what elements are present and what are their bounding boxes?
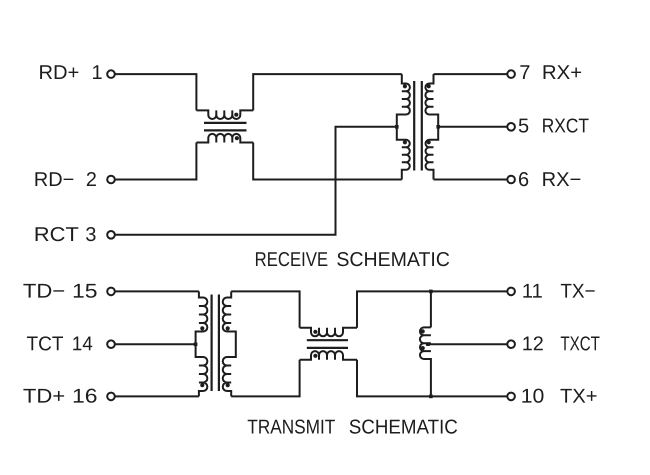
label pin number 3 (86, 227, 95, 241)
label pin number 5 (519, 119, 528, 133)
wire pin14 TCT to T3 primary center tap (115, 343, 195, 345)
transformer T2 secondary top phase dot (427, 84, 431, 88)
choke T1 top winding (196, 110, 253, 119)
choke T4 top winding (300, 328, 357, 337)
pin 2 terminal (107, 176, 115, 184)
inductor L1 lower phase dot (421, 346, 425, 350)
transformer T2 primary top phase dot (403, 84, 407, 88)
label RD+ (40, 65, 78, 79)
label RCT (36, 227, 79, 241)
transformer T2 primary bottom phase dot (403, 140, 407, 144)
label pin number 15 (74, 284, 97, 298)
junction TX+ node (429, 395, 433, 399)
transformer T3 core (212, 295, 219, 392)
junction T2 primary center tap (395, 125, 399, 129)
inductor L1 winding (420, 327, 431, 396)
transformer T3 secondary winding column (223, 291, 236, 396)
label RD- (35, 172, 73, 186)
label pin number 10 (522, 389, 543, 403)
wire L1 center tap to pin12 (426, 343, 507, 345)
transformer T3 primary top phase dot (200, 326, 204, 330)
title TRANSMIT SCHEMATIC (248, 420, 457, 434)
choke T1 bottom winding phase dot (235, 136, 239, 140)
transformer T2 primary winding column (397, 74, 410, 179)
pin 16 terminal (107, 393, 115, 401)
wire pin15 to transformer T3 primary top (115, 290, 199, 292)
wire pin2 to choke T1 bottom winding (115, 143, 196, 180)
choke T4 top winding phase dot (313, 330, 317, 334)
junction T2 secondary center tap (436, 125, 440, 129)
wire T3 secondary bottom to choke T4 bottom winding (231, 360, 299, 397)
label TD+ (23, 389, 64, 403)
pin 10 terminal (507, 393, 515, 401)
transformer T2 secondary winding column (425, 74, 438, 179)
label pin number 2 (87, 172, 96, 186)
label RX+ (544, 65, 582, 79)
wire junction down to inductor L1 top (430, 291, 432, 327)
choke T4 core (307, 340, 348, 348)
label TD- (23, 284, 64, 298)
pin 6 terminal (507, 176, 515, 184)
transformer T3 secondary bottom phase dot (226, 383, 230, 387)
choke T1 core (204, 123, 247, 130)
label pin number 7 (520, 65, 529, 79)
label pin number 12 (523, 336, 543, 350)
label TCT (27, 336, 63, 350)
transformer T2 core (414, 81, 422, 171)
transformer T2 secondary bottom phase dot (427, 140, 431, 144)
wire T2 secondary top to pin7 (434, 73, 507, 75)
wire pin3 RCT to T2 primary center tap (115, 127, 397, 235)
label pin number 16 (74, 389, 97, 403)
wire T2 secondary bottom to pin6 (434, 179, 507, 181)
label pin number 11 (523, 284, 541, 298)
label TX+ (560, 389, 596, 403)
pin 14 terminal (107, 340, 115, 348)
choke T1 top winding phase dot (234, 113, 238, 117)
junction L1 center tap (426, 342, 430, 346)
transformer T3 primary bottom phase dot (200, 383, 204, 387)
label RX- (543, 172, 580, 186)
label pin number 1 (93, 65, 102, 79)
title RECEIVE SCHEMATIC (256, 252, 327, 266)
pin 1 terminal (107, 70, 115, 78)
label TXCT (561, 336, 600, 350)
label RXCT (543, 118, 588, 132)
label pin number 6 (519, 172, 528, 186)
wire T3 secondary top to choke T4 top winding (231, 291, 299, 327)
choke T4 bottom winding (300, 351, 357, 360)
junction TX- node (429, 290, 433, 294)
wire choke T1 bottom to transformer T2 primary bottom (253, 143, 402, 180)
pin 7 terminal (507, 70, 515, 78)
pin 5 terminal (507, 123, 515, 131)
transformer T3 secondary top phase dot (226, 326, 230, 330)
label TX- (561, 284, 595, 298)
inductor L1 upper phase dot (421, 329, 425, 333)
wire choke T4 bottom to pin10 (357, 360, 507, 397)
choke T1 bottom winding (196, 134, 253, 143)
choke T4 bottom winding phase dot (313, 354, 317, 358)
label pin number 14 (73, 337, 92, 351)
pin 3 terminal (107, 231, 115, 239)
pin 11 terminal (507, 288, 515, 296)
pin 12 terminal (507, 340, 515, 348)
wire pin1 to T1 choke top winding (115, 74, 196, 110)
wire pin16 to transformer T3 primary bottom (115, 395, 199, 397)
transformer T3 primary winding column (196, 291, 208, 396)
pin 15 terminal (107, 288, 115, 296)
wire choke T4 top to pin11 (357, 291, 507, 327)
wire T2 secondary center tap to pin5 (438, 126, 507, 128)
wire choke T1 top to transformer T2 primary top (253, 74, 402, 110)
junction T3 primary center tap (194, 343, 198, 347)
